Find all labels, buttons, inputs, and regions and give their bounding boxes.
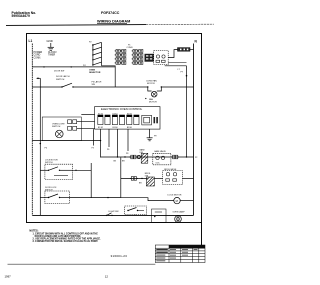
svg-text:IGN: IGN (145, 176, 149, 178)
broil valve dashed box (163, 168, 183, 184)
wire mid row (32, 140, 100, 142)
svg-text:3. CONNECTOR PIN DETAIL SHOWN: 3. CONNECTOR PIN DETAIL SHOWN AT EACH PL… (33, 240, 99, 243)
node bake junction 1 (117, 156, 118, 157)
wire right mid bus (186, 66, 188, 158)
svg-text:CONV FAN: CONV FAN (146, 80, 157, 83)
svg-text:P8: P8 (126, 153, 128, 155)
svg-text:DOOR CLOSED AND LATCHED POSITI: DOOR CLOSED AND LATCHED POSITION. (35, 235, 82, 238)
node bake bus junction (186, 156, 187, 157)
connector pair plug 2 (68, 126, 95, 130)
node junction mid (100, 140, 101, 141)
oven light switch dashed box (125, 206, 147, 215)
svg-text:SW: SW (92, 84, 95, 86)
publication number header text (12, 11, 37, 18)
node lock bus junction (40, 143, 42, 145)
wire to broil valve (154, 177, 162, 179)
clock timer label (48, 52, 57, 57)
igniter circle (137, 155, 140, 158)
label latch aux (92, 80, 102, 86)
wire control drop 2 (108, 129, 110, 147)
svg-text:FAN: FAN (149, 98, 154, 101)
oven lamp (173, 210, 186, 222)
frame right edge extension to title block (201, 223, 203, 247)
svg-text:LOCK MOTOR: LOCK MOTOR (168, 194, 182, 196)
wire N bus (193, 44, 195, 216)
connector P6 dashed shell (154, 51, 169, 65)
junction box JB (178, 48, 191, 52)
svg-text:ELECTRONIC OVEN CONTROL: ELECTRONIC OVEN CONTROL (101, 107, 143, 111)
header rule (6, 24, 146, 27)
wire connector aux to right bus (168, 62, 186, 64)
diagram frame (27, 34, 202, 223)
svg-text:P6: P6 (107, 149, 109, 151)
svg-text:BAKE VALVE: BAKE VALVE (154, 150, 166, 153)
plug pair bake right (171, 155, 179, 159)
svg-text:P2: P2 (89, 41, 92, 43)
svg-text:BR: BR (139, 182, 142, 184)
node lock row junction (107, 197, 108, 198)
svg-text:B5 B6: B5 B6 (127, 127, 132, 129)
svg-text:TIMER: TIMER (48, 55, 55, 57)
wire motor to N (161, 86, 193, 88)
node lock junction (73, 170, 92, 171)
svg-text:BK: BK (114, 161, 117, 163)
wire lock motor to N (180, 200, 193, 202)
svg-text:L1: L1 (29, 39, 33, 43)
connector pair plug 1 (68, 120, 95, 124)
wire door row (32, 66, 115, 68)
svg-text:316001-23: 316001-23 (111, 254, 128, 258)
wire control drop 3 (117, 129, 119, 157)
oven light switch box (42, 117, 81, 141)
wire L1 bus (31, 44, 33, 216)
svg-text:B1 B2: B1 B2 (98, 127, 103, 129)
ground control (147, 138, 153, 141)
bake igniter hatched (140, 149, 148, 164)
svg-text:DOOR LATCH: DOOR LATCH (56, 75, 70, 78)
node junction (71, 66, 72, 67)
wire ground drop (149, 129, 151, 138)
svg-text:B3 B4: B3 B4 (113, 127, 118, 129)
svg-text:CONN.: CONN. (34, 57, 42, 59)
display module DSP (142, 115, 158, 125)
wire to lock motor (121, 198, 174, 201)
wire control drop 1 (93, 129, 95, 145)
node terminal on bus (37, 78, 41, 80)
svg-text:IGN: IGN (140, 152, 144, 154)
svg-text:DOOR SW: DOOR SW (54, 71, 64, 73)
svg-text:LIGHT SW: LIGHT SW (109, 211, 119, 213)
power cord label (34, 52, 43, 59)
wire selector to connector drop (102, 66, 116, 87)
svg-text:P5: P5 (45, 148, 48, 150)
svg-text:CLOCK/: CLOCK/ (48, 52, 57, 54)
oven selector switch (89, 41, 102, 74)
svg-text:SWITCH: SWITCH (52, 126, 61, 128)
node broil junction (141, 178, 142, 179)
notes block (29, 229, 101, 243)
connector P1 (115, 50, 143, 65)
wire junction box to N (190, 49, 194, 51)
svg-text:SWITCH: SWITCH (45, 162, 53, 164)
wire connector bottom to right bus (165, 65, 187, 67)
svg-text:P7: P7 (181, 71, 184, 73)
svg-text:M: M (176, 199, 178, 203)
relay K2 (112, 113, 124, 129)
svg-text:FGF374CC: FGF374CC (101, 11, 120, 15)
plug pair broil left (130, 177, 138, 181)
relay module dark block (145, 54, 154, 62)
svg-text:MOTOR: MOTOR (147, 83, 155, 85)
svg-text:CORD: CORD (34, 55, 41, 57)
ground (47, 39, 55, 50)
convection fan motor (145, 80, 162, 104)
door lock switch label (45, 187, 57, 192)
title underline (97, 23, 127, 25)
lock motor M1 (168, 194, 182, 204)
svg-text:P2: P2 (195, 157, 197, 159)
svg-text:12: 12 (105, 275, 109, 279)
svg-text:CONN: CONN (127, 47, 133, 49)
relay K1 (98, 113, 110, 129)
footer rule (8, 263, 156, 265)
node junction left (43, 66, 44, 67)
lock motor switch dashed box (40, 164, 72, 179)
svg-text:P3: P3 (92, 148, 94, 150)
wire riser to bake row (100, 129, 102, 157)
door latch switch (32, 75, 148, 88)
wire connector to junction box (168, 50, 177, 58)
connector P1 label (127, 44, 133, 48)
node terminal (186, 75, 188, 77)
wire lock riser (90, 163, 92, 198)
svg-text:BROIL VALVE: BROIL VALVE (164, 168, 177, 171)
electronic oven control U1 (95, 107, 160, 130)
plug pair bake left (129, 155, 137, 159)
svg-text:BR: BR (122, 161, 125, 163)
lock motor switch label (45, 160, 58, 165)
svg-text:2. USE REPLACEMENT WIRING RATE: 2. USE REPLACEMENT WIRING RATED FOR THE … (33, 238, 102, 241)
svg-text:SELECTOR: SELECTOR (89, 72, 101, 74)
wire control drop 4 (127, 129, 129, 151)
lamp oven cavity (56, 130, 64, 138)
wire box feed (81, 114, 94, 116)
svg-text:SWITCH: SWITCH (56, 79, 65, 81)
svg-text:OVEN LAMP: OVEN LAMP (173, 210, 186, 213)
spark module box (152, 209, 167, 223)
svg-text:P3 LATCH: P3 LATCH (92, 80, 102, 83)
svg-text:1. CIRCUIT SHOWN WITH ALL CONT: 1. CIRCUIT SHOWN WITH ALL CONTROLS OFF A… (33, 232, 99, 235)
wire broil to N (182, 177, 193, 179)
wire broil riser (120, 158, 122, 198)
wire bottom bus (32, 214, 193, 216)
svg-text:5995344679: 5995344679 (12, 14, 31, 18)
svg-text:COIL: COIL (156, 163, 160, 165)
svg-text:NOTES:: NOTES: (29, 229, 38, 232)
svg-text:POWER: POWER (34, 52, 43, 54)
node bake junction 2 (124, 156, 125, 157)
svg-text:GND: GND (47, 39, 53, 43)
svg-text:1997: 1997 (5, 274, 12, 278)
wire broil row (121, 177, 148, 179)
broil igniter hatched (145, 173, 155, 186)
wire lock row (70, 197, 121, 199)
svg-text:P9: P9 (154, 136, 157, 138)
wire lock bus (39, 78, 41, 215)
switch on bottom bus (106, 213, 113, 216)
svg-text:N: N (195, 40, 198, 44)
bake valve dashed box (153, 150, 171, 165)
door lock switch dashed box (40, 191, 69, 204)
title block table (155, 245, 205, 263)
relay K3 (127, 113, 139, 129)
wire bake row (101, 156, 194, 158)
svg-text:WIRING DIAGRAM: WIRING DIAGRAM (97, 20, 130, 24)
svg-text:MOTOR: MOTOR (149, 102, 157, 104)
